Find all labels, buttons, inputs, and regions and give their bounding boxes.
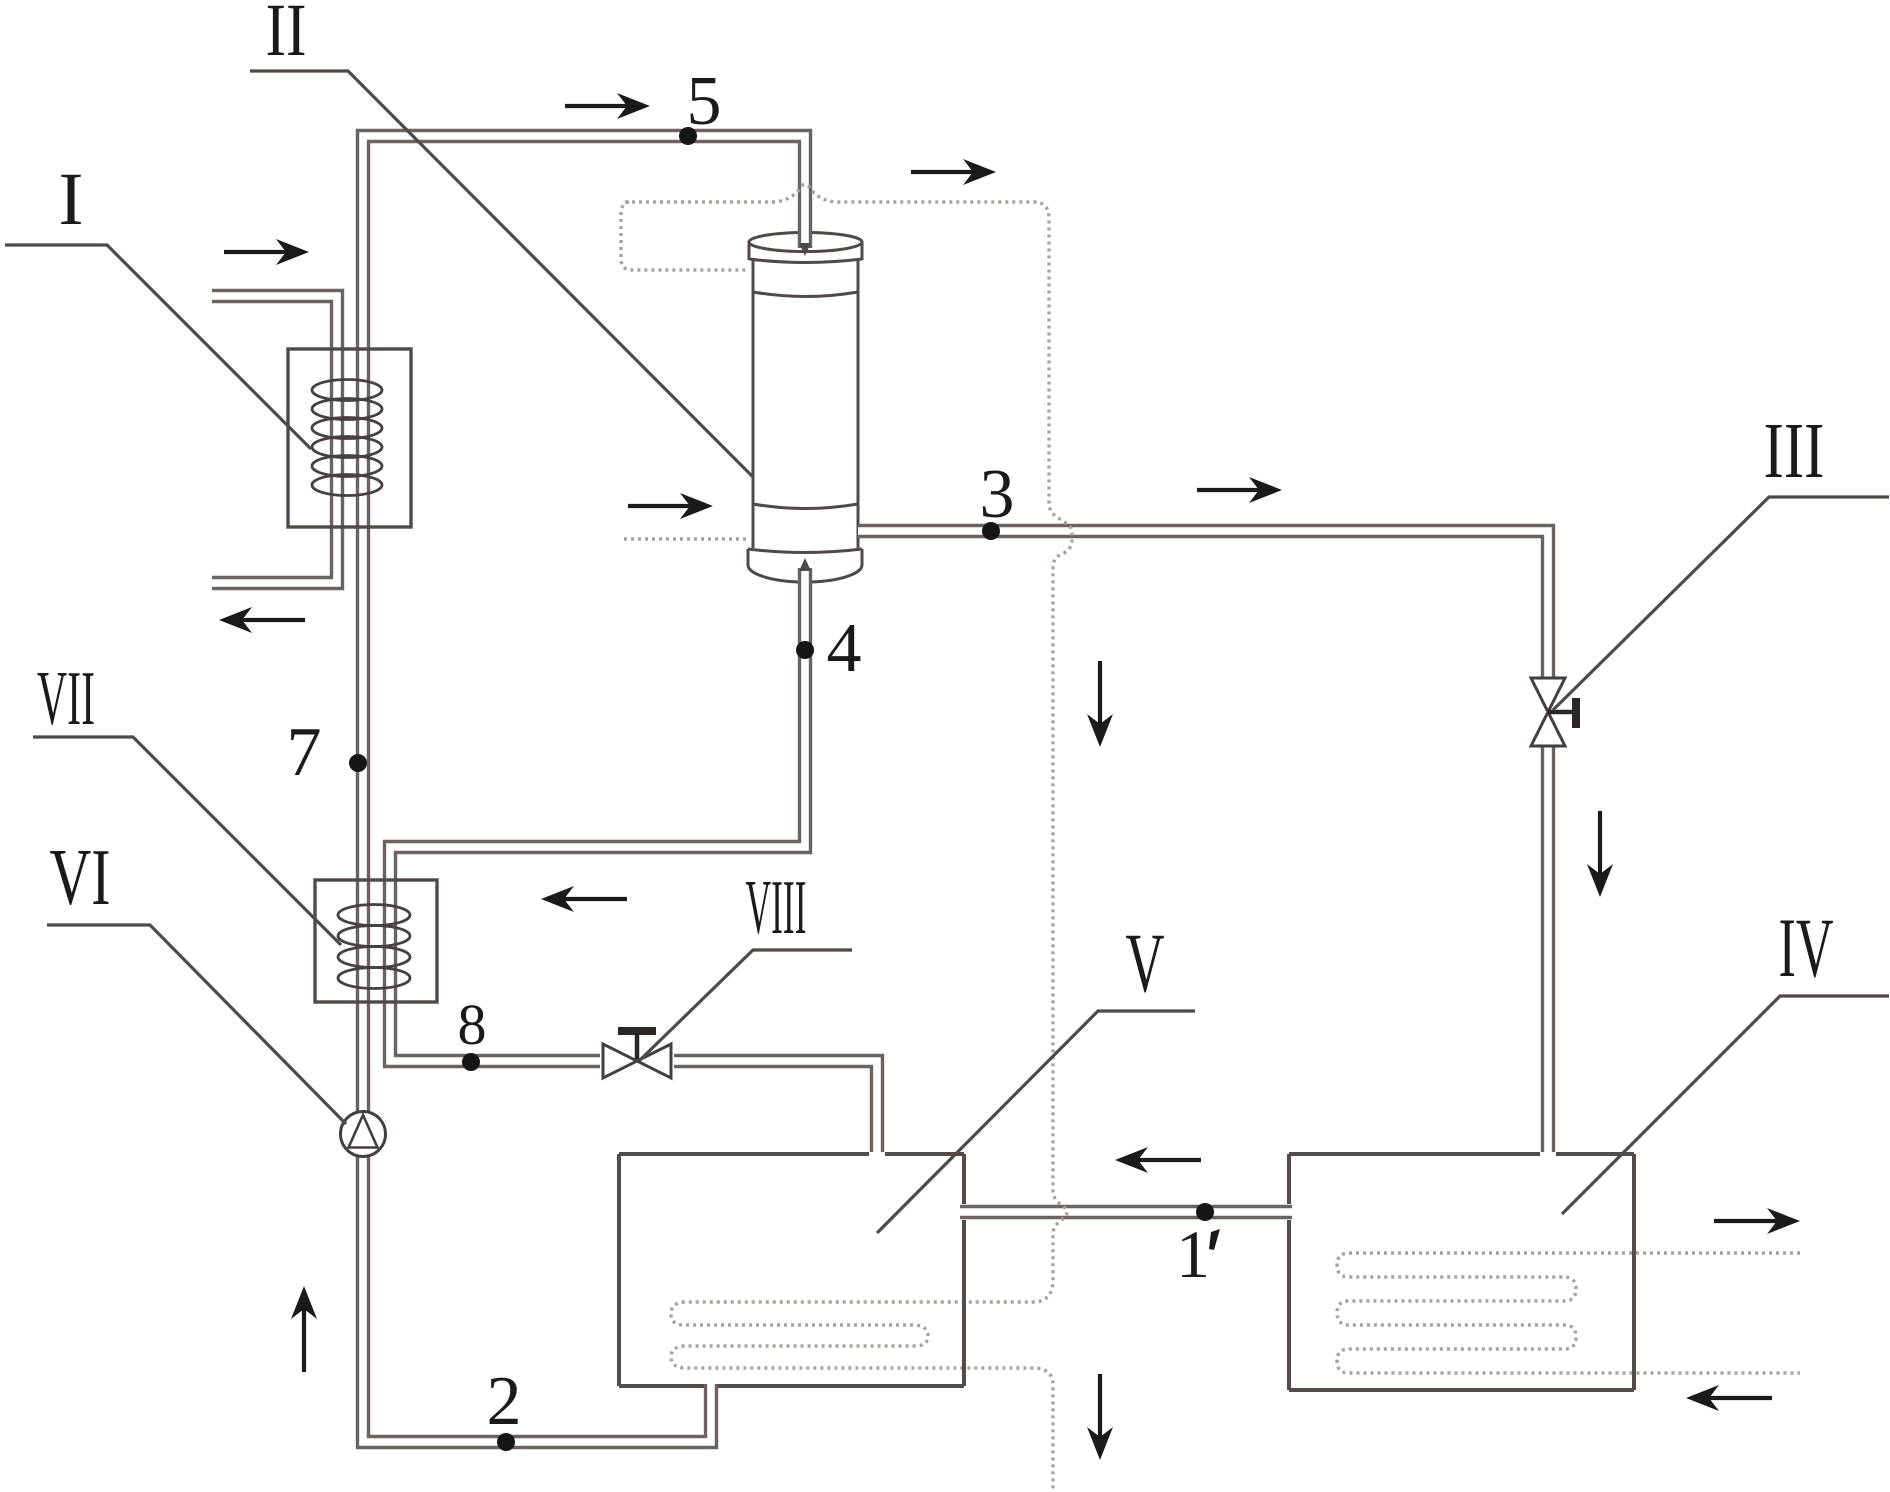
- svg-text:1: 1: [1176, 1216, 1210, 1292]
- svg-text:2: 2: [487, 1363, 522, 1440]
- svg-text:VI: VI: [50, 834, 111, 922]
- svg-text:4: 4: [827, 610, 862, 687]
- svg-text:VII: VII: [37, 655, 95, 741]
- svg-text:III: III: [1764, 408, 1825, 495]
- svg-text:3: 3: [980, 456, 1015, 533]
- svg-text:II: II: [266, 0, 307, 72]
- svg-text:5: 5: [687, 63, 722, 140]
- svg-text:I: I: [59, 158, 84, 241]
- svg-text:VIII: VIII: [746, 864, 807, 950]
- svg-text:V: V: [1126, 916, 1165, 1010]
- svg-text:8: 8: [458, 992, 487, 1057]
- svg-text:7: 7: [287, 714, 322, 791]
- svg-text:IV: IV: [1779, 901, 1834, 995]
